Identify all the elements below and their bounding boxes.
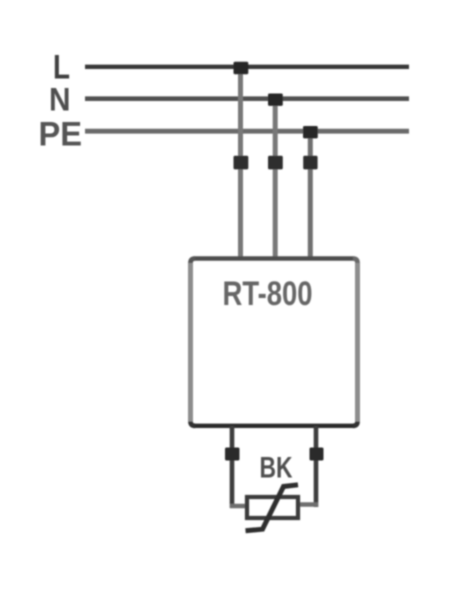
device RT-800 box: [191, 259, 358, 426]
wire drop from L: [238, 67, 243, 258]
svg-text:N: N: [49, 82, 71, 118]
wire drop from N: [273, 99, 278, 258]
wire lead left below box: [230, 426, 235, 508]
junction on N: [268, 94, 283, 106]
sensor BK diagonal stroke: [246, 485, 299, 531]
junction on PE: [303, 126, 318, 138]
svg-text:RT-800: RT-800: [223, 275, 313, 313]
wire N line: [85, 96, 409, 101]
terminal on L drop: [234, 156, 249, 170]
svg-text:BK: BK: [260, 452, 293, 485]
terminal on PE drop: [303, 156, 317, 170]
terminal on left lead: [225, 448, 240, 461]
wire sensor left: [230, 504, 248, 508]
wire L line: [85, 65, 409, 69]
terminal on N drop: [268, 156, 283, 170]
wire lead right below box: [314, 426, 319, 507]
terminal on right lead: [310, 448, 324, 461]
wire sensor right: [296, 502, 318, 506]
sensor BK body: [247, 497, 298, 518]
junction on L: [234, 62, 249, 74]
svg-text:PE: PE: [39, 116, 83, 154]
wire drop from PE: [308, 131, 313, 258]
wire PE line: [85, 129, 409, 134]
